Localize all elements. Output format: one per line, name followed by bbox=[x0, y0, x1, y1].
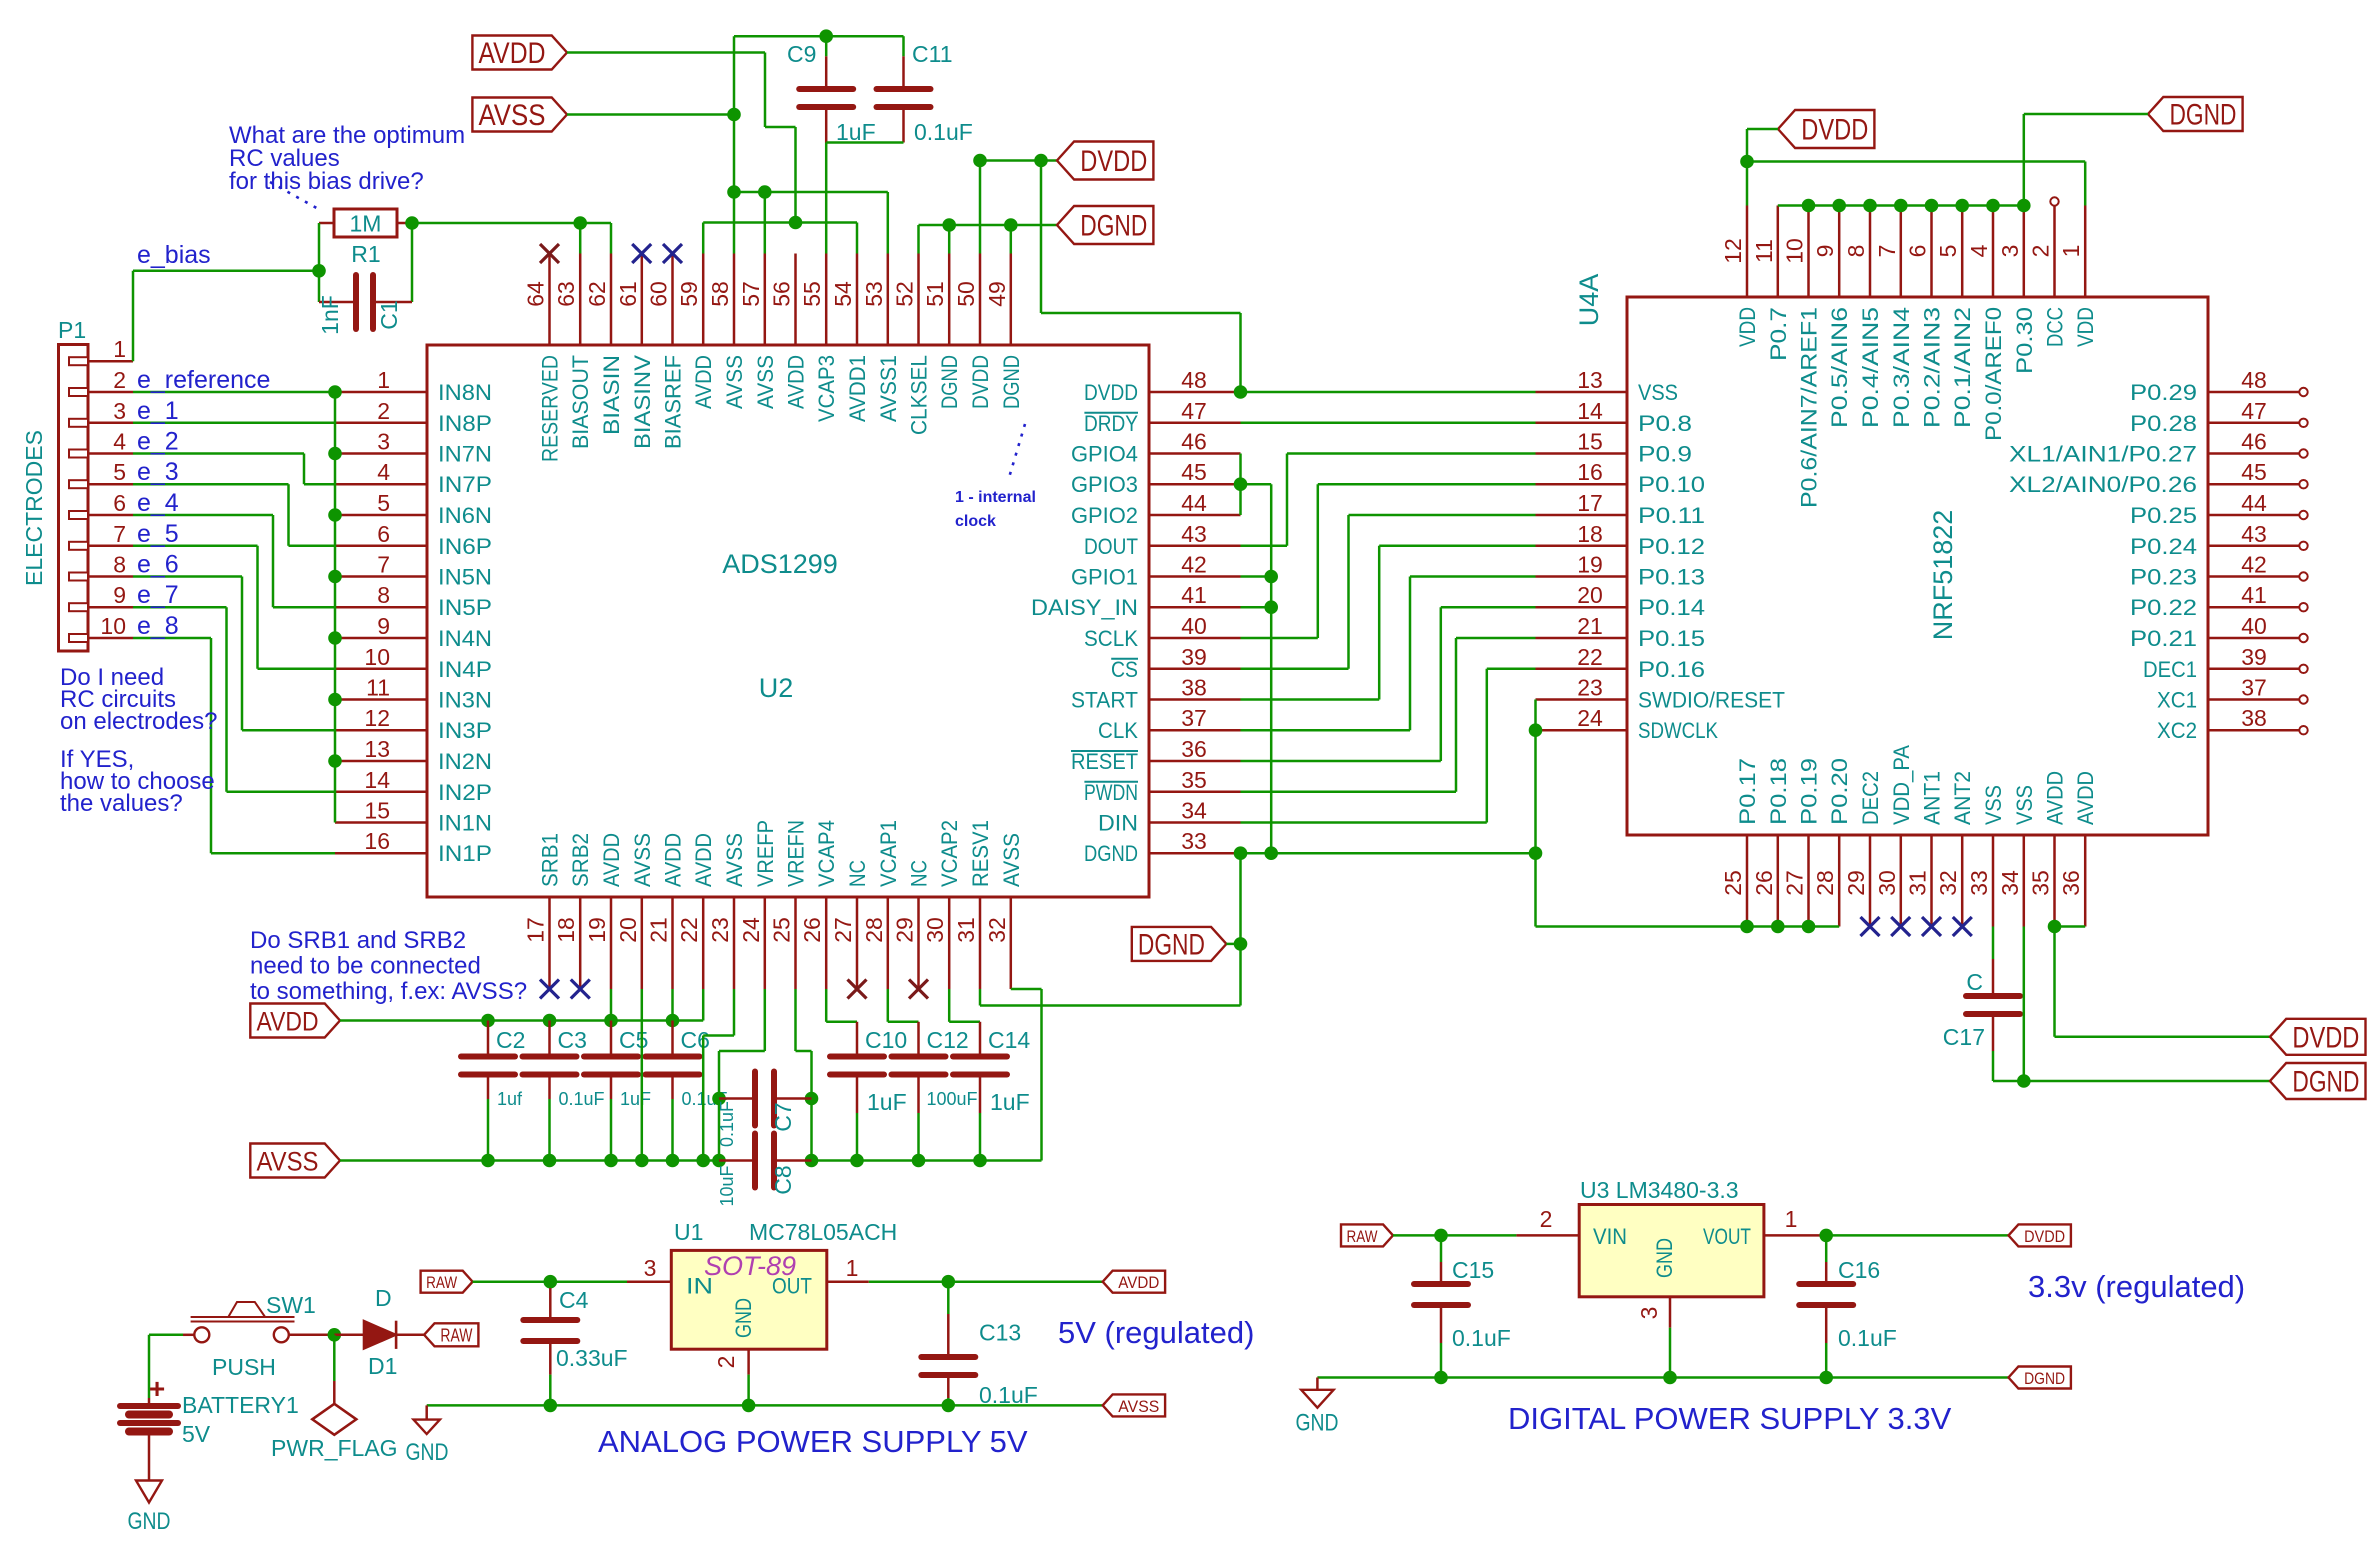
svg-text:64: 64 bbox=[523, 281, 549, 307]
svg-text:1uF: 1uF bbox=[867, 1089, 907, 1115]
svg-text:6: 6 bbox=[1905, 245, 1931, 258]
svg-text:31: 31 bbox=[1905, 870, 1931, 896]
svg-text:33: 33 bbox=[1181, 828, 1207, 854]
svg-text:Do SRB1 and SRB2: Do SRB1 and SRB2 bbox=[250, 927, 466, 954]
svg-text:48: 48 bbox=[2241, 367, 2267, 393]
svg-text:56: 56 bbox=[769, 281, 795, 307]
svg-text:37: 37 bbox=[1181, 705, 1207, 731]
svg-text:3: 3 bbox=[377, 429, 390, 455]
svg-text:P0.20: P0.20 bbox=[1827, 758, 1852, 825]
svg-text:C4: C4 bbox=[559, 1287, 589, 1313]
svg-text:15: 15 bbox=[364, 798, 390, 824]
svg-text:23: 23 bbox=[707, 917, 733, 943]
svg-text:20: 20 bbox=[615, 917, 641, 943]
svg-text:28: 28 bbox=[1812, 870, 1838, 896]
svg-text:37: 37 bbox=[2241, 675, 2267, 701]
svg-text:1uF: 1uF bbox=[990, 1089, 1030, 1115]
svg-text:14: 14 bbox=[364, 767, 390, 793]
svg-text:START: START bbox=[1071, 688, 1138, 713]
svg-text:10: 10 bbox=[364, 644, 390, 670]
svg-text:AVDD: AVDD bbox=[661, 833, 686, 887]
svg-text:SDWCLK: SDWCLK bbox=[1638, 718, 1718, 743]
svg-text:32: 32 bbox=[1935, 870, 1961, 896]
svg-text:AVSS: AVSS bbox=[722, 833, 747, 887]
svg-text:4: 4 bbox=[377, 459, 390, 485]
svg-text:IN5N: IN5N bbox=[438, 565, 492, 590]
svg-text:1M: 1M bbox=[350, 211, 382, 237]
svg-text:C15: C15 bbox=[1452, 1257, 1494, 1283]
svg-text:16: 16 bbox=[364, 828, 390, 854]
svg-text:VDD: VDD bbox=[2073, 307, 2098, 347]
svg-text:3: 3 bbox=[1636, 1307, 1662, 1320]
svg-text:VDD_PA: VDD_PA bbox=[1889, 745, 1914, 825]
svg-text:DGND: DGND bbox=[2170, 99, 2237, 132]
svg-text:AVSS: AVSS bbox=[1118, 1397, 1159, 1416]
svg-text:9: 9 bbox=[377, 613, 390, 639]
svg-text:RESERVED: RESERVED bbox=[538, 355, 563, 462]
svg-text:e_6: e_6 bbox=[137, 551, 179, 579]
svg-text:59: 59 bbox=[676, 281, 702, 307]
svg-text:DEC2: DEC2 bbox=[1858, 771, 1883, 825]
svg-text:VCAP3: VCAP3 bbox=[814, 355, 839, 422]
svg-text:RAW: RAW bbox=[426, 1273, 457, 1292]
svg-text:P0.4/AIN5: P0.4/AIN5 bbox=[1858, 307, 1883, 428]
svg-text:P0.21: P0.21 bbox=[2130, 626, 2197, 651]
svg-text:29: 29 bbox=[892, 917, 918, 943]
svg-text:VCAP4: VCAP4 bbox=[814, 820, 839, 887]
svg-text:P0.14: P0.14 bbox=[1638, 595, 1705, 620]
svg-text:clock: clock bbox=[955, 513, 996, 530]
svg-text:MC78L05ACH: MC78L05ACH bbox=[749, 1219, 897, 1245]
svg-text:36: 36 bbox=[2058, 870, 2084, 896]
svg-text:the values?: the values? bbox=[60, 790, 183, 817]
svg-text:BIASINV: BIASINV bbox=[630, 355, 655, 449]
svg-text:P0.3/AIN4: P0.3/AIN4 bbox=[1889, 307, 1914, 428]
svg-text:NRF51822: NRF51822 bbox=[1928, 510, 1958, 641]
svg-text:e_7: e_7 bbox=[137, 581, 179, 609]
svg-text:17: 17 bbox=[523, 917, 549, 943]
svg-text:P0.15: P0.15 bbox=[1638, 626, 1705, 651]
svg-text:8: 8 bbox=[1843, 245, 1869, 258]
svg-text:C8: C8 bbox=[770, 1165, 796, 1194]
svg-text:53: 53 bbox=[861, 281, 887, 307]
svg-text:10: 10 bbox=[100, 613, 126, 639]
svg-text:AVDD: AVDD bbox=[691, 355, 716, 409]
svg-text:57: 57 bbox=[738, 281, 764, 307]
svg-text:7: 7 bbox=[113, 521, 126, 547]
svg-text:IN7P: IN7P bbox=[438, 472, 492, 497]
svg-text:9: 9 bbox=[113, 582, 126, 608]
svg-text:AVSS: AVSS bbox=[479, 99, 546, 132]
svg-text:P0.11: P0.11 bbox=[1638, 503, 1705, 528]
svg-text:50: 50 bbox=[953, 281, 979, 307]
svg-text:P0.29: P0.29 bbox=[2130, 380, 2197, 405]
svg-text:45: 45 bbox=[2241, 459, 2267, 485]
svg-text:46: 46 bbox=[2241, 429, 2267, 455]
svg-text:AVDD: AVDD bbox=[2043, 771, 2068, 825]
svg-text:C3: C3 bbox=[558, 1027, 587, 1053]
svg-text:P0.22: P0.22 bbox=[2130, 595, 2197, 620]
svg-text:1 - internal: 1 - internal bbox=[955, 489, 1036, 506]
svg-text:C11: C11 bbox=[912, 41, 953, 67]
svg-text:27: 27 bbox=[830, 917, 856, 943]
svg-text:D: D bbox=[375, 1285, 392, 1311]
svg-text:1: 1 bbox=[2058, 245, 2084, 258]
svg-text:21: 21 bbox=[646, 917, 672, 943]
svg-text:e_bias: e_bias bbox=[137, 241, 211, 269]
svg-text:DGND: DGND bbox=[2024, 1369, 2065, 1388]
svg-text:43: 43 bbox=[1181, 521, 1207, 547]
svg-text:47: 47 bbox=[2241, 398, 2267, 424]
svg-text:43: 43 bbox=[2241, 521, 2267, 547]
svg-text:19: 19 bbox=[584, 917, 610, 943]
svg-text:32: 32 bbox=[984, 917, 1010, 943]
svg-text:18: 18 bbox=[553, 917, 579, 943]
svg-text:42: 42 bbox=[1181, 552, 1207, 578]
svg-text:29: 29 bbox=[1843, 870, 1869, 896]
svg-text:DRDY: DRDY bbox=[1084, 411, 1138, 436]
svg-text:AVSS: AVSS bbox=[722, 355, 747, 409]
svg-text:DGND: DGND bbox=[1080, 210, 1147, 243]
svg-text:1nF: 1nF bbox=[317, 295, 343, 335]
svg-text:20: 20 bbox=[1577, 582, 1603, 608]
svg-text:22: 22 bbox=[676, 917, 702, 943]
svg-text:2: 2 bbox=[113, 367, 126, 393]
svg-text:DCC: DCC bbox=[2043, 307, 2068, 347]
svg-text:PWDN: PWDN bbox=[1084, 780, 1138, 805]
svg-text:11: 11 bbox=[366, 675, 390, 701]
svg-text:47: 47 bbox=[1181, 398, 1207, 424]
svg-text:9: 9 bbox=[1812, 245, 1838, 258]
svg-text:DVDD: DVDD bbox=[1084, 380, 1138, 405]
svg-text:P0.2/AIN3: P0.2/AIN3 bbox=[1920, 307, 1945, 428]
svg-text:12: 12 bbox=[1720, 238, 1746, 264]
svg-text:DVDD: DVDD bbox=[2024, 1227, 2065, 1246]
svg-text:24: 24 bbox=[738, 917, 764, 943]
svg-text:10: 10 bbox=[1782, 238, 1808, 264]
svg-text:C9: C9 bbox=[787, 41, 816, 67]
svg-text:P0.9: P0.9 bbox=[1638, 442, 1692, 467]
svg-text:P0.8: P0.8 bbox=[1638, 411, 1692, 436]
svg-text:3: 3 bbox=[644, 1255, 657, 1281]
svg-text:AVDD: AVDD bbox=[599, 833, 624, 887]
svg-text:8: 8 bbox=[113, 552, 126, 578]
svg-text:DVDD: DVDD bbox=[1801, 114, 1868, 147]
svg-text:0.1uF: 0.1uF bbox=[717, 1101, 737, 1147]
svg-text:10uF: 10uF bbox=[717, 1165, 737, 1206]
svg-text:RESV1: RESV1 bbox=[968, 820, 993, 887]
svg-text:39: 39 bbox=[2241, 644, 2267, 670]
svg-text:1: 1 bbox=[1785, 1206, 1798, 1232]
svg-text:49: 49 bbox=[984, 281, 1010, 307]
svg-text:DVDD: DVDD bbox=[1080, 145, 1147, 178]
svg-text:AVSS1: AVSS1 bbox=[876, 355, 901, 422]
svg-text:DIN: DIN bbox=[1098, 811, 1138, 836]
svg-text:P0.10: P0.10 bbox=[1638, 472, 1705, 497]
svg-text:11: 11 bbox=[1751, 239, 1777, 263]
svg-text:RAW: RAW bbox=[440, 1326, 472, 1346]
svg-text:+: + bbox=[149, 1373, 165, 1404]
svg-text:GND: GND bbox=[1652, 1238, 1677, 1278]
svg-text:IN2N: IN2N bbox=[438, 749, 492, 774]
svg-text:AVDD: AVDD bbox=[1118, 1273, 1159, 1292]
svg-text:AVDD: AVDD bbox=[2073, 771, 2098, 825]
svg-text:U3 LM3480-3.3: U3 LM3480-3.3 bbox=[1580, 1177, 1739, 1203]
svg-text:28: 28 bbox=[861, 917, 887, 943]
svg-text:0.1uF: 0.1uF bbox=[1838, 1325, 1897, 1351]
svg-text:XL1/AIN1/P0.27: XL1/AIN1/P0.27 bbox=[2009, 442, 2197, 467]
svg-text:51: 51 bbox=[922, 281, 948, 307]
svg-text:SRB1: SRB1 bbox=[538, 833, 563, 887]
svg-text:R1: R1 bbox=[351, 241, 380, 267]
svg-text:P0.1/AIN2: P0.1/AIN2 bbox=[1950, 307, 1975, 428]
svg-text:XC1: XC1 bbox=[2157, 688, 2197, 713]
svg-text:AVDD: AVDD bbox=[691, 833, 716, 887]
svg-text:need to be connected: need to be connected bbox=[250, 953, 481, 980]
svg-text:18: 18 bbox=[1577, 521, 1603, 547]
svg-text:CLKSEL: CLKSEL bbox=[907, 355, 932, 435]
svg-text:35: 35 bbox=[2028, 870, 2054, 896]
svg-text:34: 34 bbox=[1997, 870, 2023, 896]
svg-text:0.1uF: 0.1uF bbox=[979, 1382, 1038, 1408]
svg-text:IN3P: IN3P bbox=[438, 718, 492, 743]
svg-text:OUT: OUT bbox=[772, 1274, 812, 1299]
svg-text:C2: C2 bbox=[496, 1027, 525, 1053]
svg-text:3: 3 bbox=[113, 398, 126, 424]
svg-text:27: 27 bbox=[1782, 870, 1808, 896]
svg-text:P0.19: P0.19 bbox=[1797, 758, 1822, 825]
svg-text:33: 33 bbox=[1966, 870, 1992, 896]
svg-text:31: 31 bbox=[953, 917, 979, 943]
svg-text:GPIO1: GPIO1 bbox=[1071, 565, 1138, 590]
svg-text:26: 26 bbox=[799, 917, 825, 943]
svg-text:DIGITAL POWER SUPPLY 3.3V: DIGITAL POWER SUPPLY 3.3V bbox=[1508, 1401, 1952, 1436]
svg-text:44: 44 bbox=[1181, 490, 1207, 516]
svg-text:100uF: 100uF bbox=[927, 1089, 978, 1109]
svg-text:DOUT: DOUT bbox=[1084, 534, 1138, 559]
svg-text:e_4: e_4 bbox=[137, 489, 179, 517]
svg-text:GPIO2: GPIO2 bbox=[1071, 503, 1138, 528]
svg-text:P0.5/AIN6: P0.5/AIN6 bbox=[1827, 307, 1852, 428]
svg-text:25: 25 bbox=[769, 917, 795, 943]
svg-text:IN4N: IN4N bbox=[438, 626, 492, 651]
svg-text:DGND: DGND bbox=[1138, 929, 1205, 962]
svg-text:GND: GND bbox=[1296, 1410, 1339, 1437]
svg-text:42: 42 bbox=[2241, 552, 2267, 578]
svg-text:30: 30 bbox=[1874, 870, 1900, 896]
svg-text:6: 6 bbox=[377, 521, 390, 547]
svg-text:DGND: DGND bbox=[999, 355, 1024, 409]
svg-text:SW1: SW1 bbox=[266, 1292, 316, 1318]
svg-text:D1: D1 bbox=[368, 1353, 397, 1379]
svg-text:ANT1: ANT1 bbox=[1920, 771, 1945, 825]
svg-text:63: 63 bbox=[553, 281, 579, 307]
svg-text:IN5P: IN5P bbox=[438, 595, 492, 620]
svg-text:5: 5 bbox=[377, 490, 390, 516]
svg-text:VIN: VIN bbox=[1593, 1224, 1627, 1249]
svg-text:U4A: U4A bbox=[1574, 274, 1604, 327]
svg-text:VSS: VSS bbox=[1638, 380, 1678, 405]
svg-text:45: 45 bbox=[1181, 459, 1207, 485]
svg-text:3.3v (regulated): 3.3v (regulated) bbox=[2028, 1269, 2245, 1304]
svg-text:SWDIO/RESET: SWDIO/RESET bbox=[1638, 688, 1785, 713]
svg-text:DAISY_IN: DAISY_IN bbox=[1031, 595, 1138, 620]
svg-text:U1: U1 bbox=[674, 1219, 703, 1245]
svg-text:25: 25 bbox=[1720, 870, 1746, 896]
svg-text:4: 4 bbox=[1966, 244, 1992, 257]
svg-text:P0.6/AIN7/AREF1: P0.6/AIN7/AREF1 bbox=[1797, 307, 1822, 508]
svg-text:55: 55 bbox=[799, 281, 825, 307]
svg-text:AVSS: AVSS bbox=[257, 1146, 319, 1176]
svg-text:2: 2 bbox=[377, 398, 390, 424]
svg-text:U2: U2 bbox=[759, 673, 794, 703]
svg-text:P0.13: P0.13 bbox=[1638, 565, 1705, 590]
svg-text:40: 40 bbox=[1181, 613, 1207, 639]
svg-text:on electrodes?: on electrodes? bbox=[60, 708, 217, 735]
svg-text:1uf: 1uf bbox=[497, 1089, 523, 1109]
svg-text:24: 24 bbox=[1577, 705, 1603, 731]
svg-text:IN: IN bbox=[686, 1274, 713, 1299]
svg-text:1: 1 bbox=[113, 336, 126, 362]
svg-text:7: 7 bbox=[377, 552, 390, 578]
svg-text:C17: C17 bbox=[1943, 1024, 1985, 1050]
svg-text:AVDD1: AVDD1 bbox=[845, 355, 870, 422]
svg-text:6: 6 bbox=[113, 490, 126, 516]
svg-text:P0.7: P0.7 bbox=[1766, 307, 1791, 361]
svg-text:DEC1: DEC1 bbox=[2143, 657, 2197, 682]
svg-text:60: 60 bbox=[646, 281, 672, 307]
svg-text:VREFN: VREFN bbox=[784, 820, 809, 887]
svg-text:VSS: VSS bbox=[2012, 785, 2037, 825]
svg-text:46: 46 bbox=[1181, 429, 1207, 455]
svg-text:GPIO3: GPIO3 bbox=[1071, 472, 1138, 497]
svg-text:P1: P1 bbox=[58, 317, 86, 343]
svg-text:e_reference: e_reference bbox=[137, 366, 270, 394]
svg-text:5V: 5V bbox=[182, 1421, 211, 1447]
svg-text:to something, f.ex: AVSS?: to something, f.ex: AVSS? bbox=[250, 978, 527, 1005]
svg-text:26: 26 bbox=[1751, 870, 1777, 896]
svg-text:P0.28: P0.28 bbox=[2130, 411, 2197, 436]
svg-text:35: 35 bbox=[1181, 767, 1207, 793]
svg-text:15: 15 bbox=[1577, 429, 1603, 455]
svg-text:VDD: VDD bbox=[1735, 307, 1760, 347]
svg-text:0.1uF: 0.1uF bbox=[914, 119, 973, 145]
svg-text:C10: C10 bbox=[865, 1027, 907, 1053]
svg-text:DGND: DGND bbox=[1084, 841, 1138, 866]
svg-text:SCLK: SCLK bbox=[1084, 626, 1138, 651]
svg-text:for this bias drive?: for this bias drive? bbox=[229, 168, 424, 195]
svg-text:14: 14 bbox=[1577, 398, 1603, 424]
svg-text:1: 1 bbox=[377, 367, 390, 393]
svg-text:16: 16 bbox=[1577, 459, 1603, 485]
svg-text:P0.24: P0.24 bbox=[2130, 534, 2197, 559]
svg-text:BIASREF: BIASREF bbox=[661, 355, 686, 449]
svg-text:e_3: e_3 bbox=[137, 458, 179, 486]
svg-text:IN4P: IN4P bbox=[438, 657, 492, 682]
svg-text:SRB2: SRB2 bbox=[568, 833, 593, 887]
svg-text:e_5: e_5 bbox=[137, 520, 179, 548]
svg-text:PUSH: PUSH bbox=[212, 1354, 276, 1380]
svg-text:1uF: 1uF bbox=[836, 119, 876, 145]
svg-text:38: 38 bbox=[1181, 675, 1207, 701]
svg-text:AVSS: AVSS bbox=[630, 833, 655, 887]
svg-text:PWR_FLAG: PWR_FLAG bbox=[271, 1435, 398, 1461]
svg-text:VOUT: VOUT bbox=[1703, 1224, 1751, 1249]
svg-text:BIASIN: BIASIN bbox=[599, 355, 624, 435]
svg-text:P0.23: P0.23 bbox=[2130, 565, 2197, 590]
svg-text:12: 12 bbox=[364, 705, 390, 731]
svg-text:IN1N: IN1N bbox=[438, 811, 492, 836]
svg-text:AVDD: AVDD bbox=[784, 355, 809, 409]
svg-text:C14: C14 bbox=[988, 1027, 1030, 1053]
svg-text:23: 23 bbox=[1577, 675, 1603, 701]
svg-text:C6: C6 bbox=[681, 1027, 710, 1053]
svg-text:VSS: VSS bbox=[1981, 785, 2006, 825]
svg-text:IN8N: IN8N bbox=[438, 380, 492, 405]
svg-text:5: 5 bbox=[113, 459, 126, 485]
svg-text:C5: C5 bbox=[619, 1027, 648, 1053]
svg-text:e_1: e_1 bbox=[137, 397, 179, 425]
svg-text:BATTERY1: BATTERY1 bbox=[182, 1392, 299, 1418]
svg-text:1: 1 bbox=[846, 1255, 859, 1281]
svg-text:XL2/AIN0/P0.26: XL2/AIN0/P0.26 bbox=[2009, 472, 2197, 497]
svg-text:VREFP: VREFP bbox=[753, 820, 778, 887]
svg-text:VCAP2: VCAP2 bbox=[937, 820, 962, 887]
svg-text:BIASOUT: BIASOUT bbox=[568, 355, 593, 449]
svg-text:13: 13 bbox=[1577, 367, 1603, 393]
svg-text:17: 17 bbox=[1577, 490, 1603, 516]
svg-text:DGND: DGND bbox=[937, 355, 962, 409]
svg-text:62: 62 bbox=[584, 281, 610, 307]
svg-text:21: 21 bbox=[1577, 613, 1603, 639]
svg-text:40: 40 bbox=[2241, 613, 2267, 639]
svg-text:5V (regulated): 5V (regulated) bbox=[1058, 1315, 1254, 1350]
svg-text:P0.18: P0.18 bbox=[1766, 758, 1791, 825]
svg-text:e_2: e_2 bbox=[137, 428, 179, 456]
svg-text:ANALOG POWER SUPPLY 5V: ANALOG POWER SUPPLY 5V bbox=[598, 1424, 1028, 1459]
svg-text:48: 48 bbox=[1181, 367, 1207, 393]
svg-text:GND: GND bbox=[731, 1298, 756, 1338]
svg-text:IN2P: IN2P bbox=[438, 780, 492, 805]
svg-text:4: 4 bbox=[113, 429, 126, 455]
svg-text:DVDD: DVDD bbox=[2292, 1021, 2359, 1054]
svg-text:XC2: XC2 bbox=[2157, 718, 2197, 743]
svg-text:C13: C13 bbox=[979, 1320, 1021, 1346]
svg-text:41: 41 bbox=[1181, 582, 1207, 608]
svg-text:IN6P: IN6P bbox=[438, 534, 492, 559]
svg-text:5: 5 bbox=[1935, 245, 1961, 258]
svg-text:58: 58 bbox=[707, 281, 733, 307]
svg-text:GPIO4: GPIO4 bbox=[1071, 442, 1138, 467]
svg-text:NC: NC bbox=[845, 860, 870, 887]
svg-text:RAW: RAW bbox=[1347, 1227, 1378, 1246]
svg-text:GND: GND bbox=[128, 1508, 171, 1535]
svg-text:30: 30 bbox=[922, 917, 948, 943]
svg-text:IN1P: IN1P bbox=[438, 841, 492, 866]
svg-text:ADS1299: ADS1299 bbox=[722, 549, 838, 579]
svg-text:1uF: 1uF bbox=[620, 1089, 651, 1109]
svg-text:39: 39 bbox=[1181, 644, 1207, 670]
svg-text:CS: CS bbox=[1111, 657, 1138, 682]
svg-text:RESET: RESET bbox=[1071, 749, 1138, 774]
svg-text:0.1uF: 0.1uF bbox=[1452, 1325, 1511, 1351]
svg-text:VCAP1: VCAP1 bbox=[876, 820, 901, 887]
svg-text:22: 22 bbox=[1577, 644, 1603, 670]
svg-text:P0.12: P0.12 bbox=[1638, 534, 1705, 559]
svg-text:IN3N: IN3N bbox=[438, 688, 492, 713]
svg-text:CLK: CLK bbox=[1098, 718, 1138, 743]
svg-text:C1: C1 bbox=[376, 300, 402, 329]
